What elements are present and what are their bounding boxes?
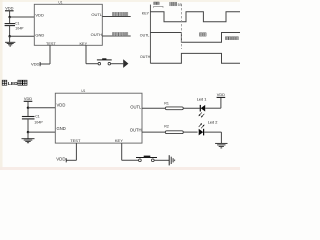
svg-text:KEY: KEY [142,12,150,16]
svg-text:104P: 104P [34,121,43,125]
svg-text:VDD: VDD [31,62,40,67]
svg-text:OUTL: OUTL [130,104,142,109]
svg-text:C1: C1 [35,115,40,119]
svg-text:OUTH: OUTH [130,127,142,132]
svg-text:GND: GND [57,126,66,131]
svg-text:104P: 104P [15,26,24,30]
svg-text:VDD: VDD [5,6,13,11]
svg-text:TEST: TEST [46,42,56,46]
svg-text:U1: U1 [58,0,62,4]
svg-text:VDD: VDD [35,12,44,17]
svg-text:Led 1: Led 1 [197,97,207,102]
svg-text:Led 2: Led 2 [208,120,218,125]
svg-text:VDD: VDD [56,157,65,162]
svg-text:C1: C1 [15,22,20,26]
svg-text:LED: LED [8,81,18,87]
svg-text:VDD: VDD [217,92,225,97]
svg-text:R2: R2 [164,125,169,129]
svg-text:GND: GND [35,33,44,38]
svg-text:KEY: KEY [115,138,123,143]
svg-text:KEY: KEY [80,42,88,46]
svg-text:VDD: VDD [24,96,32,101]
svg-text:R1: R1 [164,102,169,106]
svg-text:OUTH: OUTH [91,32,102,37]
svg-text:TEST: TEST [70,138,81,143]
svg-text:OUTL: OUTL [140,33,150,37]
svg-text:OUTH: OUTH [140,55,151,59]
svg-text:VDD: VDD [57,103,66,108]
svg-text:U1: U1 [81,89,85,93]
svg-text:OUTL: OUTL [91,12,102,17]
svg-text:5S: 5S [178,3,183,7]
